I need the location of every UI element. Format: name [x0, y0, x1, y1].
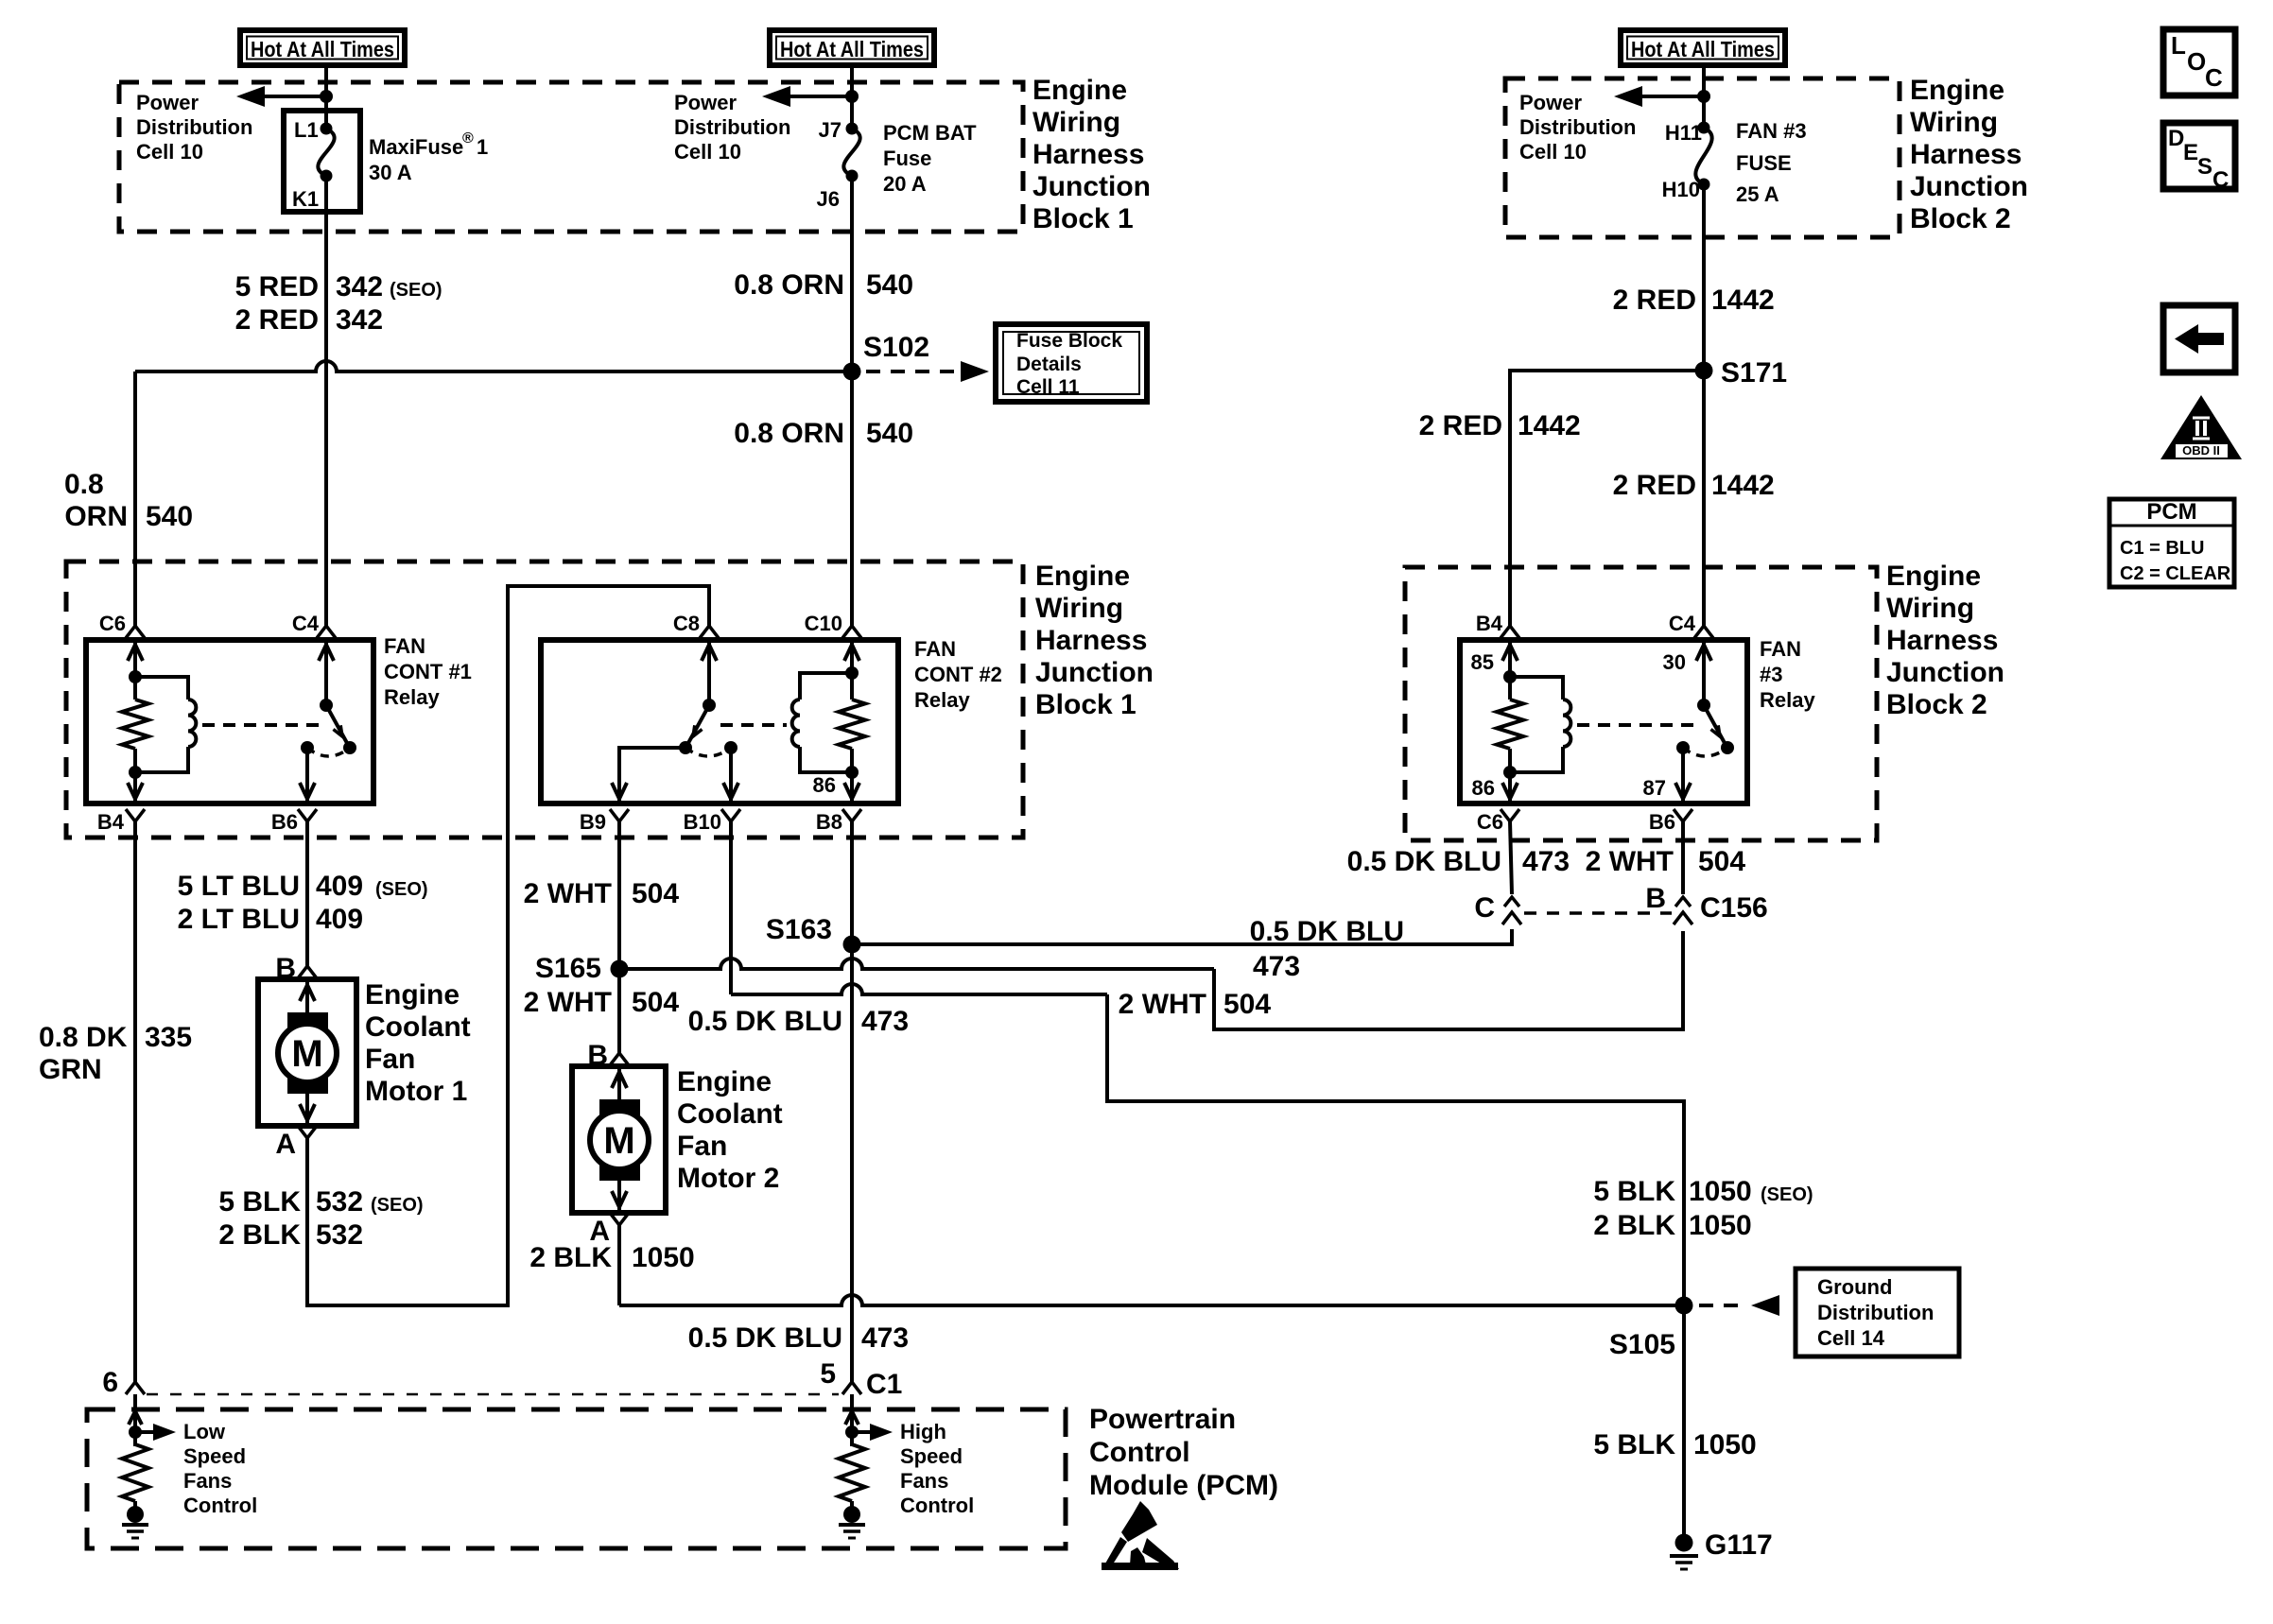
relay3 switch travel dashed arc [1683, 748, 1727, 756]
svg-text:S165: S165 [535, 953, 601, 984]
label: 0.8 ORN 540 (left rail) [64, 469, 193, 532]
svg-text:C1: C1 [866, 1369, 902, 1400]
svg-text:FAN: FAN [1760, 637, 1801, 661]
svg-text:25 A: 25 A [1736, 182, 1779, 206]
svg-text:C4: C4 [1669, 612, 1696, 635]
svg-text:Distribution: Distribution [136, 115, 252, 139]
relay1 switch arm with arrowhead [326, 705, 347, 743]
label: 2 RED 1442 (upper) [1613, 285, 1775, 316]
svg-text:Wiring: Wiring [1035, 593, 1123, 624]
svg-text:®: ® [462, 130, 474, 147]
svg-text:Engine: Engine [1035, 561, 1130, 592]
svg-text:Relay: Relay [384, 685, 440, 709]
splice S105 dot [1675, 1297, 1693, 1315]
svg-text:2 BLK: 2 BLK [529, 1242, 612, 1273]
relay3 switch common line pin 30 with up arrow [1702, 640, 1706, 705]
svg-text:504: 504 [632, 878, 679, 909]
svg-text:Power: Power [1519, 91, 1582, 114]
svg-text:B6: B6 [1649, 810, 1675, 834]
svg-text:B4: B4 [1476, 612, 1503, 635]
dashed box: Engine Wiring Harness Junction Block 1 (top) [119, 82, 1023, 232]
svg-text:Fan: Fan [677, 1131, 727, 1162]
svg-text:C1 = BLU: C1 = BLU [2120, 538, 2204, 559]
svg-text:Module (PCM): Module (PCM) [1089, 1470, 1278, 1501]
svg-text:Power: Power [136, 91, 199, 114]
svg-text:C10: C10 [805, 612, 842, 635]
svg-text:Coolant: Coolant [677, 1098, 783, 1130]
svg-text:2 WHT: 2 WHT [1119, 989, 1206, 1020]
wire relay1 B6 down to motor1 B [305, 821, 309, 966]
svg-text:Junction: Junction [1910, 171, 2028, 202]
text: FAN CONT #2 Relay [914, 637, 1002, 712]
svg-text:Distribution: Distribution [1817, 1301, 1934, 1324]
motor M1 output arrow [305, 1094, 309, 1126]
wire motor2 A down then right to S105 with hop [617, 1225, 621, 1305]
label: 2 BLK 1050 [529, 1242, 694, 1273]
label: 5 BLK 1050 (to G117) [1593, 1429, 1756, 1460]
motor M1 pin A connector chevron [298, 1126, 317, 1138]
relay K1 FAN CONT #1 box [86, 640, 373, 803]
svg-text:Engine: Engine [677, 1066, 772, 1097]
svg-text:409: 409 [316, 904, 363, 935]
svg-text:High: High [900, 1420, 946, 1443]
motor M2 pin B connector chevron [610, 1053, 629, 1065]
motor M2 output arrow [617, 1181, 621, 1213]
svg-text:Engine: Engine [365, 979, 460, 1011]
svg-text:H11: H11 [1665, 121, 1702, 145]
motor M1 input arrow [305, 979, 309, 1013]
relay3 coil input line with up arrow, pin 85 [1508, 640, 1512, 677]
svg-text:5 LT BLU: 5 LT BLU [178, 871, 300, 902]
svg-text:Distribution: Distribution [674, 115, 790, 139]
svg-text:Harness: Harness [1886, 625, 1998, 656]
label: 2 WHT 504 (relay3 B6) [1586, 846, 1746, 877]
svg-text:Engine: Engine [1886, 561, 1981, 592]
motor M2 input arrow [617, 1066, 621, 1100]
relay1 pin B6 connector chevron [298, 809, 317, 821]
motor M1 brushes [287, 1012, 328, 1035]
svg-text:Junction: Junction [1886, 657, 2004, 688]
label: 2 WHT 504 (jog) [1119, 989, 1272, 1020]
relay1 switch pivot dot [320, 699, 333, 712]
svg-text:0.5 DK BLU: 0.5 DK BLU [688, 1006, 842, 1037]
svg-text:85: 85 [1471, 650, 1494, 674]
svg-text:Fuse: Fuse [883, 147, 931, 170]
svg-text:(SEO): (SEO) [390, 280, 442, 301]
dashed reference arrow S105 to Ground Distribution [1699, 1304, 1747, 1307]
svg-text:5 BLK: 5 BLK [1593, 1429, 1675, 1460]
svg-text:342: 342 [336, 271, 383, 302]
svg-text:ORN: ORN [64, 501, 128, 532]
wire W1 fuse K1 to relay1 C4 [324, 176, 328, 626]
svg-text:409: 409 [316, 871, 363, 902]
svg-text:0.5 DK BLU: 0.5 DK BLU [1347, 846, 1501, 877]
relay1 switch common line with up arrow [324, 640, 328, 705]
relay2 output to B8 with down arrow [850, 772, 854, 803]
wire S102 horizontal to left rail with hop over W1 [135, 361, 852, 371]
relay3 switch pivot dot [1697, 699, 1710, 712]
svg-text:FAN: FAN [914, 637, 956, 661]
motor M1 pin B connector chevron [298, 966, 317, 978]
svg-text:C156: C156 [1700, 892, 1768, 924]
svg-text:C6: C6 [1477, 810, 1503, 834]
relay1 pin C6 connector chevron [126, 626, 145, 638]
connector C156 pin C double chevron [1504, 897, 1519, 907]
svg-text:J7: J7 [819, 118, 842, 142]
label: 5 LT BLU 409 (SEO) [178, 871, 428, 902]
junction dot on PCM BAT fuse feed [845, 90, 859, 103]
wire motor1 A down to ground-bus corner, right, and up to relay2 C8 feed [307, 586, 709, 1305]
svg-text:473: 473 [861, 1322, 909, 1354]
svg-text:473: 473 [861, 1006, 909, 1037]
wire relay2 B9 down to S165 [617, 821, 621, 969]
relay2 pin C10 connector chevron [842, 626, 861, 638]
svg-text:K1: K1 [292, 187, 319, 211]
label: 2 RED 1442 (left branch) [1419, 410, 1581, 441]
fuse F3 FAN #3 element [1695, 128, 1711, 184]
label: 0.5 DK BLU 473 (relay3 C6) [1347, 846, 1570, 877]
relay2 switch arm tip dot [679, 741, 692, 754]
motor M1 Engine Coolant Fan Motor 1 box [258, 979, 356, 1126]
svg-text:G117: G117 [1705, 1529, 1773, 1561]
relay1 output to B6 with down arrow [305, 748, 309, 803]
relay2 pin C8 connector chevron [700, 626, 719, 638]
text: FAN CONT #1 Relay [384, 634, 472, 709]
svg-text:Junction: Junction [1032, 171, 1151, 202]
svg-text:Power: Power [674, 91, 737, 114]
svg-text:B: B [1645, 883, 1666, 914]
icon box: DESC [2163, 123, 2235, 189]
svg-text:CONT #2: CONT #2 [914, 663, 1002, 686]
PCM low-speed junction dot [129, 1425, 142, 1439]
svg-text:Coolant: Coolant [365, 1011, 471, 1043]
svg-text:87: 87 [1643, 776, 1666, 800]
svg-text:86: 86 [813, 773, 836, 797]
svg-text:GRN: GRN [39, 1054, 102, 1085]
relay1 switch travel dashed arc [307, 748, 350, 756]
svg-text:473: 473 [1253, 951, 1300, 982]
relay3 switch arm with arrowhead [1704, 705, 1725, 743]
svg-text:FAN: FAN [384, 634, 425, 658]
relay3 dashed actuation link [1577, 723, 1694, 727]
text: FAN #3 FUSE 25 A [1736, 119, 1807, 206]
svg-text:Wiring: Wiring [1886, 593, 1974, 624]
wire W2 fuse J6 down to S102 [850, 176, 854, 371]
svg-text:D: D [2168, 126, 2184, 151]
junction dot on FAN #3 fuse feed [1697, 90, 1710, 103]
svg-text:1442: 1442 [1711, 470, 1775, 501]
dashed box: Engine Wiring Harness Junction Block 2 (relay row) [1405, 567, 1877, 840]
svg-text:Motor 1: Motor 1 [365, 1076, 467, 1107]
ground G117 dot and symbol [1675, 1534, 1693, 1552]
svg-text:Relay: Relay [1760, 688, 1815, 712]
svg-text:S102: S102 [863, 332, 929, 363]
relay2 pin B9 connector chevron [610, 809, 629, 821]
label: 0.5 DK BLU 473 (lower) [688, 1322, 909, 1354]
svg-text:Relay: Relay [914, 688, 970, 712]
relay2 switch arm with arrowhead [688, 705, 709, 743]
text: Powertrain Control Module (PCM) [1089, 1404, 1278, 1501]
wire relay3 B6 down to C156 pin B [1681, 821, 1685, 894]
text: Engine Wiring Harness Junction Block 1 (top) [1032, 75, 1151, 234]
wire W2 S102 down to relay2 C10 [850, 371, 854, 626]
thin dashed connector face line C1 [147, 1393, 839, 1396]
svg-text:335: 335 [145, 1022, 192, 1053]
relay3 pin B4 connector chevron [1501, 626, 1519, 638]
svg-text:(SEO): (SEO) [1761, 1184, 1813, 1205]
svg-text:MaxiFuse: MaxiFuse [369, 135, 463, 159]
dashed reference arrow S102 to Fuse Block Details [866, 370, 970, 373]
relay3 pin C6 connector chevron [1501, 809, 1519, 821]
svg-text:342: 342 [336, 304, 383, 336]
svg-text:PCM: PCM [2146, 499, 2196, 525]
svg-text:Cell 10: Cell 10 [1519, 140, 1587, 164]
svg-text:540: 540 [866, 418, 913, 449]
svg-text:M: M [291, 1033, 322, 1075]
svg-text:PCM BAT: PCM BAT [883, 121, 977, 145]
label: 2 BLK 532 [218, 1219, 363, 1251]
relay3 coil branch [1510, 677, 1563, 700]
wire left rail from S102 down to relay1 C6 [133, 371, 137, 626]
text: Low Speed Fans Control [183, 1420, 257, 1517]
wire S105 down to G117 [1682, 1305, 1686, 1543]
svg-text:Speed: Speed [900, 1444, 963, 1468]
svg-text:S105: S105 [1609, 1329, 1675, 1360]
text: PCM BAT Fuse 20 A [883, 121, 977, 196]
svg-text:#3: #3 [1760, 663, 1782, 686]
relay1 switch fixed contact dot [301, 741, 314, 754]
svg-text:2 WHT: 2 WHT [524, 987, 612, 1018]
relay3 coil top junction dot [1503, 670, 1517, 683]
svg-text:FAN #3: FAN #3 [1736, 119, 1807, 143]
icon box: back arrow [2163, 305, 2235, 372]
svg-text:540: 540 [146, 501, 193, 532]
relay2 coil branch [800, 673, 852, 700]
text: Engine Wiring Harness Junction Block 2 (top right) [1910, 75, 2028, 234]
wire MaxiFuse feed from Hot At All Times [324, 65, 328, 129]
svg-text:Hot At All Times: Hot At All Times [251, 37, 394, 61]
svg-text:Block 2: Block 2 [1886, 689, 1987, 720]
text: MaxiFuse(R)1 30 A [369, 130, 488, 184]
relay K3 FAN #3 box [1460, 640, 1747, 803]
svg-text:30: 30 [1663, 650, 1686, 674]
relay3 resistor (parallel with coil) [1497, 700, 1523, 749]
relay3 output pin 87 with down arrow [1681, 748, 1685, 803]
PCM high-speed side arrow [852, 1430, 876, 1434]
label: 0.5 DK BLU 473 (upper) [688, 1006, 909, 1037]
text: Engine Wiring Harness Junction Block 1 (relay row) [1035, 561, 1154, 720]
svg-text:0.8: 0.8 [64, 469, 104, 500]
svg-text:Cell 10: Cell 10 [674, 140, 741, 164]
label: 5 BLK 1050 (SEO) at S105 rail [1593, 1176, 1813, 1207]
text: Engine Coolant Fan Motor 1 [365, 979, 471, 1107]
PCM high-speed input arrow [850, 1394, 854, 1446]
svg-text:Wiring: Wiring [1032, 107, 1120, 138]
relay2 switch travel dashed arc [685, 748, 731, 756]
svg-text:86: 86 [1472, 776, 1495, 800]
svg-text:2 RED: 2 RED [1613, 285, 1696, 316]
relay2 pin B8 connector chevron [842, 809, 861, 821]
svg-text:Cell 10: Cell 10 [136, 140, 203, 164]
svg-text:Fans: Fans [900, 1469, 948, 1493]
svg-text:C4: C4 [292, 612, 320, 635]
junction dot on MaxiFuse feed [320, 90, 333, 103]
text: FAN #3 Relay [1760, 637, 1815, 712]
text: Engine Coolant Fan Motor 2 [677, 1066, 783, 1194]
svg-text:2 WHT: 2 WHT [524, 878, 612, 909]
svg-text:504: 504 [1223, 989, 1271, 1020]
svg-text:1: 1 [477, 135, 488, 159]
relay1 coil top junction dot [129, 670, 142, 683]
wire S171 down to relay3 C4 [1702, 371, 1706, 626]
svg-text:(SEO): (SEO) [375, 879, 428, 900]
splice S165 dot [611, 960, 629, 978]
icon box: LOC [2163, 29, 2235, 95]
svg-text:C: C [2205, 63, 2223, 92]
svg-text:1442: 1442 [1711, 285, 1775, 316]
svg-text:504: 504 [1698, 846, 1745, 877]
label: 2 RED 1442 (lower) [1613, 470, 1775, 501]
label: 0.8 ORN 540 (lower) [734, 418, 913, 449]
svg-text:Cell 11: Cell 11 [1016, 376, 1080, 398]
svg-text:2 BLK: 2 BLK [1593, 1210, 1675, 1241]
relay2 B10 output with down arrow [729, 748, 733, 803]
label: 2 RED 342 [235, 304, 383, 336]
fuse F1 element [318, 129, 334, 176]
svg-text:30 A: 30 A [369, 161, 412, 184]
label: 5 BLK 532 (SEO) [218, 1186, 423, 1218]
svg-text:B9: B9 [580, 810, 606, 834]
relay2 switch fixed contact dot [724, 741, 737, 754]
svg-text:Powertrain: Powertrain [1089, 1404, 1236, 1435]
svg-text:O: O [2187, 47, 2206, 76]
svg-text:B8: B8 [816, 810, 842, 834]
svg-text:540: 540 [866, 269, 913, 301]
dashed box: Engine Wiring Harness Junction Block 2 (top right) [1505, 78, 1900, 237]
relay3 switch fixed contact dot [1676, 741, 1690, 754]
svg-text:A: A [275, 1129, 296, 1160]
connector pin 5 / C1 chevron at PCM [842, 1382, 861, 1394]
svg-text:C2 = CLEAR: C2 = CLEAR [2120, 563, 2231, 584]
label: 2 LT BLU 409 [178, 904, 364, 935]
relay1 pin C4 connector chevron [317, 626, 336, 638]
svg-text:S171: S171 [1721, 357, 1787, 389]
wire S171 branch left then down to relay3 B4 [1510, 371, 1704, 626]
legend box: PCM connector colors [2109, 499, 2234, 587]
svg-text:Motor 2: Motor 2 [677, 1163, 779, 1194]
svg-text:B10: B10 [684, 810, 721, 834]
PCM low-speed input arrow [133, 1394, 137, 1446]
svg-text:Hot At All Times: Hot At All Times [1631, 37, 1775, 61]
svg-text:J6: J6 [817, 187, 840, 211]
connector C156 dashed mating line [1524, 911, 1672, 915]
PCM low-speed resistor to ground [122, 1444, 148, 1501]
svg-text:Block 1: Block 1 [1032, 203, 1134, 234]
relay2 switch common line with up arrow [707, 640, 711, 705]
svg-text:1050: 1050 [1693, 1429, 1757, 1460]
svg-text:5 BLK: 5 BLK [218, 1186, 301, 1218]
wire S163 right then up to C156 pin C [852, 929, 1512, 944]
svg-text:Block 2: Block 2 [1910, 203, 2011, 234]
svg-text:C: C [2212, 167, 2229, 193]
label: 5 RED 342 (SEO) [235, 271, 442, 302]
svg-text:Fuse Block: Fuse Block [1016, 330, 1122, 352]
motor M2 Engine Coolant Fan Motor 2 box [572, 1066, 666, 1213]
svg-text:FUSE: FUSE [1736, 151, 1792, 175]
relay2 resistor (parallel with coil) [839, 700, 865, 749]
svg-text:L: L [2171, 31, 2186, 60]
reference box: Fuse Block Details Cell 11 [996, 324, 1147, 402]
svg-text:S: S [2197, 154, 2212, 180]
reference box: Ground Distribution Cell 14 [1796, 1269, 1959, 1356]
dashed box: Engine Wiring Harness Junction Block 1 (relay row) [66, 561, 1023, 838]
relay1 switch arm tip dot [343, 741, 356, 754]
svg-text:C: C [1474, 892, 1495, 924]
relay2 switch pivot dot [703, 699, 716, 712]
relay2 coil feed line with up arrow [850, 640, 854, 673]
PCM high-speed ground dot and symbol [843, 1506, 860, 1523]
svg-text:Speed: Speed [183, 1444, 246, 1468]
svg-text:2 LT BLU: 2 LT BLU [178, 904, 300, 935]
svg-text:1050: 1050 [1689, 1176, 1752, 1207]
svg-text:OBD II: OBD II [2182, 443, 2220, 458]
label: 2 BLK 1050 at S105 rail [1593, 1210, 1751, 1241]
svg-text:(SEO): (SEO) [371, 1195, 424, 1216]
text: Engine Wiring Harness Junction Block 2 (relay row) [1886, 561, 2004, 720]
label: 2 WHT 504 (below S165) [524, 987, 680, 1018]
splice S171 dot [1695, 362, 1713, 380]
svg-text:473: 473 [1522, 846, 1570, 877]
label: 2 WHT 504 (above S165) [524, 878, 680, 909]
svg-text:Cell 14: Cell 14 [1817, 1326, 1885, 1350]
relay1 resistor (parallel with coil) [122, 700, 148, 749]
relay3 coil output pin 86 with down arrow [1508, 772, 1512, 803]
relay1 dashed actuation link [202, 723, 320, 727]
relay2 coil bottom junction dot [845, 766, 859, 779]
svg-text:5: 5 [820, 1358, 836, 1390]
relay2 pin B10 connector chevron [721, 809, 740, 821]
relay2 dashed actuation link [720, 723, 787, 727]
wire relay2 B10 down, right with hop, jog down to S105 rail [729, 821, 733, 994]
fuse F1 MaxiFuse(R)1 30 A box [284, 111, 360, 212]
fuse F2 PCM BAT element [843, 129, 859, 176]
relay1 coil input line with up arrow [133, 640, 137, 677]
svg-text:Engine: Engine [1032, 75, 1127, 106]
svg-text:0.8 ORN: 0.8 ORN [734, 269, 844, 301]
ESD sensitive device symbol [1102, 1501, 1179, 1570]
svg-text:M: M [603, 1120, 634, 1162]
text: Power Distribution Cell 10 (right) [1519, 91, 1636, 164]
relay K2 FAN CONT #2 box [541, 640, 898, 803]
svg-text:E: E [2183, 140, 2198, 165]
svg-text:Low: Low [183, 1420, 226, 1443]
text: Power Distribution Cell 10 (center) [674, 91, 790, 164]
motor M1 armature circle with M [278, 1024, 337, 1082]
text: Power Distribution Cell 10 (left) [136, 91, 252, 164]
svg-text:504: 504 [632, 987, 679, 1018]
motor M2 armature circle with M [590, 1111, 649, 1169]
svg-text:Fan: Fan [365, 1044, 415, 1075]
svg-text:2 RED: 2 RED [1613, 470, 1696, 501]
relay2 B9 output with down arrow [619, 748, 685, 803]
wire S165 right with hops then jog down and right to C156 pin B [619, 959, 1214, 969]
motor M2 brushes [599, 1099, 640, 1122]
label box: Hot At All Times (center) [770, 30, 934, 65]
splice S102 dot [843, 363, 861, 381]
svg-text:S163: S163 [766, 914, 832, 945]
svg-text:6: 6 [102, 1367, 118, 1398]
svg-text:B6: B6 [271, 810, 298, 834]
